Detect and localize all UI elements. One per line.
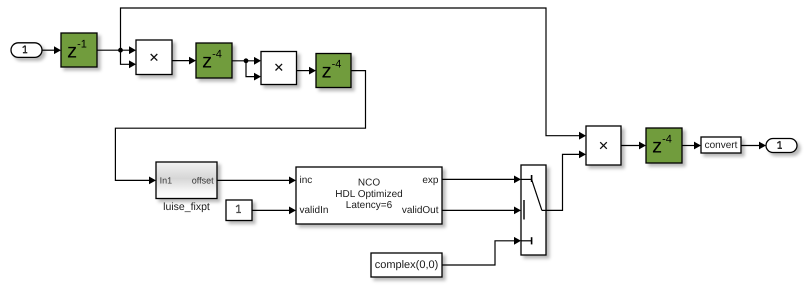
wire NCO exp to switch input 1 <box>442 176 521 184</box>
delay block D3 z^-4 <box>646 128 682 163</box>
NCO HDL Optimized block <box>296 167 442 224</box>
data type conversion block convert <box>701 137 741 153</box>
subsystem luise_fixpt <box>156 162 217 213</box>
wire inport to delay z1 <box>42 46 61 54</box>
wire subsystem offset to NCO inc <box>217 177 296 185</box>
wire convert to outport <box>741 142 766 150</box>
svg-text:inc: inc <box>300 175 313 186</box>
wire P2 to delay D2 <box>297 67 317 75</box>
feedback wire from node 1 to product P3 input 1 <box>121 8 587 140</box>
svg-text:validOut: validOut <box>402 205 439 216</box>
wire constant 1 to NCO validIn <box>252 207 296 215</box>
delay block D1 z^-4 <box>196 43 232 78</box>
svg-text:convert: convert <box>705 140 738 151</box>
outport 1 (oval) <box>766 139 797 153</box>
junction node dot 1 <box>118 48 123 53</box>
wire branch to P2 input 2 <box>246 61 261 81</box>
svg-text:validIn: validIn <box>300 205 329 216</box>
wire D3 to convert <box>682 142 701 150</box>
wire D2 to subsystem In1 <box>115 71 365 185</box>
inport 1 (oval) <box>11 43 42 58</box>
wire D1 to product P2 input 1 <box>232 57 261 65</box>
svg-text:Latency=6: Latency=6 <box>346 200 393 211</box>
switch block <box>521 165 546 255</box>
wire complex(0,0) to switch input 3 <box>442 237 521 265</box>
constant block 1 <box>226 200 252 221</box>
wire NCO validOut to switch input 2 <box>442 207 521 215</box>
constant block complex(0,0) <box>371 253 442 277</box>
svg-text:HDL Optimized: HDL Optimized <box>335 189 402 200</box>
product P2 <box>261 52 297 85</box>
wire P1 to delay D1 <box>172 57 196 65</box>
svg-text:In1: In1 <box>160 176 173 186</box>
junction node dot 2 <box>244 58 249 63</box>
delay block z^-1 <box>61 33 97 67</box>
svg-text:offset: offset <box>192 176 214 186</box>
product P3 <box>586 126 621 165</box>
svg-text:luise_fixpt: luise_fixpt <box>163 201 210 213</box>
wire P3 to delay D3 <box>621 142 646 150</box>
svg-text:complex(0,0): complex(0,0) <box>375 259 439 271</box>
wire branch to P1 input 2 <box>121 50 137 68</box>
svg-text:exp: exp <box>422 175 439 186</box>
wire z1 to product P1 input 1 <box>97 46 136 54</box>
svg-text:NCO: NCO <box>358 178 380 189</box>
product P1 <box>136 40 172 75</box>
delay block D2 z^-4 <box>316 54 351 88</box>
wire switch to product P3 input 2 <box>546 151 586 211</box>
